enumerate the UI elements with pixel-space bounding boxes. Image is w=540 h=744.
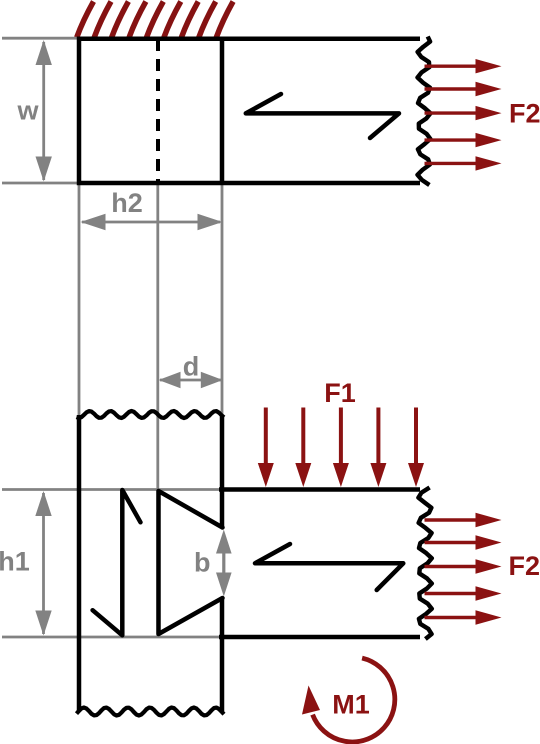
top beam shear symbol: [246, 94, 399, 138]
force F2 arrows (bottom): [425, 513, 502, 527]
dimension line h1: [42, 493, 45, 634]
svg-text:F2: F2: [509, 551, 540, 581]
fixed support hatching: [77, 2, 233, 38]
column edges: [79, 415, 222, 712]
dimension line b: [222, 552, 225, 574]
moment M1 arrowhead: [302, 686, 320, 715]
dimension line w: [42, 42, 45, 180]
column shear symbol: [93, 490, 141, 635]
svg-text:b: b: [194, 548, 211, 578]
force F2 arrows (top): [425, 59, 502, 73]
lower beam shear symbol: [255, 544, 403, 590]
weld cross-section outline: [159, 491, 223, 634]
svg-text:h1: h1: [0, 547, 30, 577]
svg-text:F1: F1: [324, 378, 356, 408]
top beam torn right edge: [418, 37, 431, 186]
svg-text:d: d: [183, 352, 200, 382]
gray projection verticals: [79, 184, 222, 637]
svg-text:M1: M1: [332, 690, 370, 720]
moment M1 arc: [313, 658, 395, 742]
lower beam torn right edge: [418, 488, 431, 640]
column break line (upper): [77, 411, 225, 418]
svg-text:h2: h2: [111, 188, 143, 218]
svg-text:w: w: [16, 96, 39, 126]
dimension line d: [160, 379, 221, 382]
top beam hidden (dashed) line: [156, 39, 160, 183]
lower beam outline: [219, 490, 420, 638]
w dimension extension lines: [2, 38, 78, 183]
h1 dimension extension lines: [2, 490, 220, 638]
dimension line h2: [82, 221, 220, 224]
column break line (bottom): [77, 708, 225, 716]
svg-text:F2: F2: [509, 99, 540, 129]
top beam outline: [77, 37, 420, 186]
force F1 arrows: [258, 408, 274, 488]
